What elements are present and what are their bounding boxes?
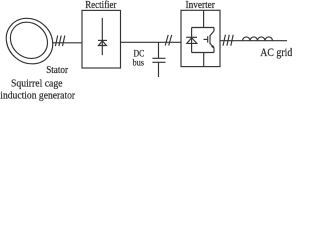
diode D2 (inverter antiparallel) bbox=[186, 28, 197, 53]
IGBT Q1 (inverter) bbox=[204, 28, 215, 53]
svg-text:Rectifier: Rectifier bbox=[85, 0, 117, 11]
wire: inverter to AC grid bbox=[220, 40, 287, 42]
generator G1 (squirrel cage induction generator) stator outer ring bbox=[0, 9, 62, 73]
two-wire slash marks (DC bus) bbox=[165, 35, 172, 46]
wire: inverter internal bottom stub bbox=[203, 53, 205, 67]
inverter block bbox=[181, 10, 220, 66]
svg-text:bus: bus bbox=[133, 58, 145, 68]
wire: rectifier to inverter (DC bus) bbox=[121, 41, 182, 43]
wire: stator to rectifier bbox=[52, 42, 82, 44]
label: DC bus bbox=[133, 49, 145, 68]
wire: inverter internal top rail bbox=[192, 27, 214, 29]
svg-text:Squirrel cage: Squirrel cage bbox=[11, 77, 63, 89]
capacitor C1 (DC bus) bbox=[152, 42, 165, 77]
diode D1 (rectifier) bbox=[98, 18, 107, 55]
three-phase slash marks on stator wire bbox=[55, 36, 64, 47]
svg-text:AC grid: AC grid bbox=[260, 47, 292, 59]
wire: inverter internal top stub bbox=[203, 10, 205, 27]
generator G1 rotor inner ring bbox=[3, 15, 55, 66]
rectifier block bbox=[82, 10, 121, 68]
wire: inverter internal bottom rail bbox=[192, 52, 214, 54]
inductor L1 (grid-side filter choke) bbox=[243, 37, 273, 41]
svg-text:Inverter: Inverter bbox=[186, 0, 216, 11]
svg-text:induction generator: induction generator bbox=[0, 90, 75, 102]
three-phase slash marks on grid wire bbox=[223, 35, 233, 46]
svg-text:Stator: Stator bbox=[46, 65, 68, 76]
